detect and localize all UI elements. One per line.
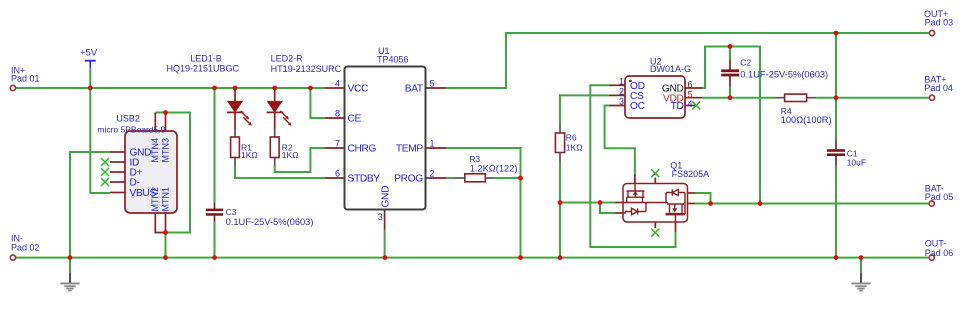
svg-text:1KΩ: 1KΩ (566, 143, 583, 153)
svg-text:STDBY: STDBY (348, 174, 381, 185)
svg-text:100Ω(100R): 100Ω(100R) (781, 115, 832, 125)
svg-text:1KΩ: 1KΩ (282, 150, 299, 160)
svg-text:Pad 06: Pad 06 (925, 248, 954, 258)
svg-text:1.2KΩ(122): 1.2KΩ(122) (470, 164, 518, 174)
svg-text:4: 4 (335, 79, 340, 89)
svg-text:USB2: USB2 (116, 114, 140, 124)
svg-text:1KΩ: 1KΩ (241, 150, 258, 160)
svg-text:Pad 03: Pad 03 (925, 18, 954, 28)
svg-text:Pad 01: Pad 01 (11, 74, 40, 84)
svg-text:0.1UF-25V-5%(0603): 0.1UF-25V-5%(0603) (226, 217, 314, 227)
svg-text:MTN4: MTN4 (150, 138, 160, 163)
svg-text:D-: D- (130, 178, 140, 189)
svg-text:6: 6 (335, 169, 340, 179)
svg-text:R3: R3 (469, 154, 480, 164)
svg-text:5: 5 (688, 89, 693, 99)
svg-text:C2: C2 (740, 57, 751, 67)
svg-text:VCC: VCC (348, 84, 368, 95)
svg-text:MTN3: MTN3 (160, 138, 170, 163)
svg-text:CE: CE (348, 114, 362, 125)
svg-text:3: 3 (619, 97, 624, 107)
svg-text:micro 5PBoard5.9: micro 5PBoard5.9 (97, 125, 165, 135)
svg-text:2: 2 (430, 169, 435, 179)
svg-text:FS8205A: FS8205A (672, 169, 710, 179)
svg-text:TP4056: TP4056 (377, 55, 409, 65)
svg-text:CHRG: CHRG (348, 144, 377, 155)
svg-text:DW01A-G: DW01A-G (650, 64, 691, 74)
svg-text:HQ19-2151UBGC: HQ19-2151UBGC (167, 64, 240, 74)
svg-text:7: 7 (335, 139, 340, 149)
svg-text:LED1-B: LED1-B (190, 53, 222, 63)
svg-text:MTN2: MTN2 (150, 187, 160, 212)
svg-text:10uF: 10uF (847, 157, 866, 167)
svg-text:MTN1: MTN1 (160, 187, 170, 212)
svg-text:1: 1 (430, 139, 435, 149)
svg-text:2: 2 (619, 86, 624, 96)
svg-text:LED2-R: LED2-R (271, 53, 304, 63)
svg-text:+5V: +5V (80, 48, 98, 59)
svg-text:Pad 04: Pad 04 (924, 83, 953, 93)
svg-text:3: 3 (378, 212, 383, 222)
svg-text:8: 8 (335, 109, 340, 119)
svg-text:6: 6 (688, 80, 693, 90)
svg-text:TD: TD (671, 101, 684, 112)
svg-text:Pad 05: Pad 05 (925, 192, 954, 202)
svg-text:HT19-2132SURC: HT19-2132SURC (271, 64, 342, 74)
svg-text:TEMP: TEMP (396, 144, 423, 155)
svg-text:Pad 02: Pad 02 (11, 242, 40, 252)
svg-text:PROG: PROG (394, 174, 423, 185)
svg-text:R6: R6 (566, 132, 577, 142)
svg-text:0.1UF-25V-5%(0603): 0.1UF-25V-5%(0603) (740, 69, 828, 79)
svg-text:1: 1 (619, 76, 624, 86)
svg-text:GND: GND (381, 186, 392, 208)
svg-text:5: 5 (430, 79, 435, 89)
svg-text:BAT: BAT (405, 84, 423, 95)
svg-text:OC: OC (630, 101, 645, 112)
svg-text:C3: C3 (226, 207, 237, 217)
svg-text:4: 4 (688, 99, 693, 109)
